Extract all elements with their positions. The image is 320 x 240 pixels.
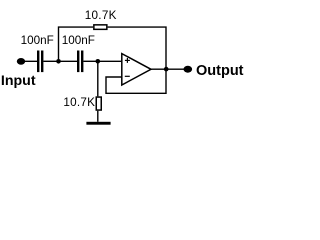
svg-text:100nF: 100nF (21, 34, 54, 47)
resistor R2 10.7K (to ground) (96, 97, 101, 110)
wire node B to op-amp noninverting input (98, 60, 122, 62)
resistor R1 10.7K (feedback) (94, 25, 107, 30)
input terminal dot (17, 58, 25, 65)
wire node A to C2 (59, 60, 78, 62)
wire C2 to node B (83, 60, 97, 62)
svg-text:Input: Input (1, 73, 36, 89)
wire input to C1 (21, 60, 37, 62)
node B junction dot (96, 59, 101, 64)
wire C1 to node A (43, 60, 58, 62)
node A junction dot (56, 59, 61, 64)
svg-text:Output: Output (196, 63, 244, 79)
wire node A up to feedback branch (59, 27, 94, 61)
capacitor C1 100nF (37, 51, 43, 73)
svg-text:100nF: 100nF (62, 34, 95, 47)
wire R1 to output node (108, 27, 166, 69)
op-amp U1 (122, 54, 151, 85)
wire feedback to inverting input (106, 69, 166, 93)
output terminal dot (184, 66, 193, 73)
wire R2 to ground (97, 111, 99, 122)
output node junction dot (164, 67, 169, 72)
wire op-amp output (151, 68, 184, 70)
ground (86, 122, 110, 125)
wire node B down to R2 (97, 61, 99, 96)
svg-text:10.7K: 10.7K (85, 9, 117, 22)
capacitor C2 100nF (77, 51, 83, 73)
svg-text:10.7K: 10.7K (63, 96, 95, 109)
